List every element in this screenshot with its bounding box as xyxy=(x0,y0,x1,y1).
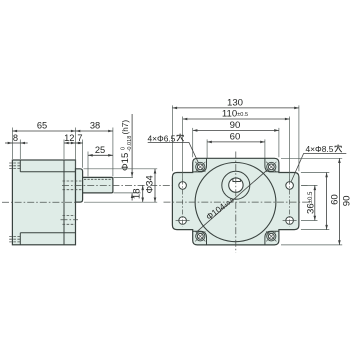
svg-text:8: 8 xyxy=(13,133,18,143)
phi6.5 hole top-left xyxy=(195,162,205,172)
gear hidden lines lower xyxy=(63,215,76,224)
motor/gearhead joint line xyxy=(63,160,65,245)
svg-text:(h7): (h7) xyxy=(121,120,130,135)
keyway xyxy=(233,179,241,182)
svg-text:-0.018: -0.018 xyxy=(127,136,133,152)
dim 90 right xyxy=(338,158,340,245)
ext line shaft bottom right xyxy=(114,192,141,194)
ext line shaft top right xyxy=(114,176,134,178)
output shaft xyxy=(83,177,113,193)
dim 38 xyxy=(76,130,113,132)
hole tick left-bottom xyxy=(176,220,190,222)
hole column centerline left xyxy=(182,180,184,227)
rear cover joint line xyxy=(19,160,21,172)
ext line x=12.4 xyxy=(11,128,13,160)
dim 110 +-0.5 xyxy=(183,118,290,120)
lower gear axis centerline xyxy=(61,219,79,221)
phi8.5 hole right-top xyxy=(286,182,294,190)
corner pad bottom-right xyxy=(265,231,279,245)
ext line x=75.6 xyxy=(75,128,77,168)
dim 25 xyxy=(88,154,113,156)
dim 60 right xyxy=(326,173,328,230)
label phi15 tolerance (h7) rotated xyxy=(120,120,133,171)
horizontal centerline front view xyxy=(164,201,310,203)
phi104 diagonal leader xyxy=(197,170,267,232)
ext line x=20.3 xyxy=(19,140,21,160)
dim 36 +-0.5 xyxy=(314,185,316,220)
svg-text:Φ34: Φ34 xyxy=(144,175,155,194)
spigot circle phi104 xyxy=(195,163,276,242)
svg-text:38: 38 xyxy=(90,121,100,131)
ext line x=64 xyxy=(63,140,65,160)
corner pad top-right xyxy=(265,158,279,172)
svg-text:7: 7 xyxy=(77,133,82,143)
phi6.5 hole top-right xyxy=(266,162,276,172)
boss circle xyxy=(222,171,250,199)
corner pad top-left xyxy=(193,158,207,172)
upper internal body line xyxy=(20,171,75,173)
ext line x=112.9 xyxy=(112,128,114,177)
svg-text:60: 60 xyxy=(230,132,241,143)
phi8.5 hole right-bottom xyxy=(286,217,294,225)
ext line x=88 xyxy=(87,152,89,177)
svg-text:4×Φ6.5: 4×Φ6.5 xyxy=(148,133,176,143)
rear screw hidden lines top xyxy=(9,163,20,169)
svg-text:25: 25 xyxy=(95,145,105,155)
svg-text:0: 0 xyxy=(120,147,126,150)
dim 65 xyxy=(12,130,75,132)
dim 7 xyxy=(76,142,83,144)
phi6.5 hole bottom-left xyxy=(195,231,205,241)
hole tick right-bottom xyxy=(283,220,297,222)
svg-text:65: 65 xyxy=(37,121,47,131)
svg-text:18: 18 xyxy=(132,188,143,199)
ext line boss top right xyxy=(84,168,158,170)
phi8.5 hole left-top xyxy=(179,182,187,190)
shaft hole xyxy=(229,178,243,192)
svg-text:90: 90 xyxy=(341,196,350,207)
phi8.5 hole left-bottom xyxy=(179,217,187,225)
dim 12 xyxy=(64,142,76,144)
svg-text:130: 130 xyxy=(227,98,243,109)
svg-text:60: 60 xyxy=(330,194,341,205)
motor body fill xyxy=(12,160,75,245)
gear hidden lines upper xyxy=(63,181,83,190)
ext line x=82.6 xyxy=(82,140,84,168)
svg-text:Φ15: Φ15 xyxy=(120,153,131,171)
ext lines right xyxy=(281,158,342,245)
phi104 label xyxy=(204,195,236,222)
svg-text:4×Φ8.5: 4×Φ8.5 xyxy=(306,144,334,154)
phi15 dim leader upper xyxy=(131,114,133,177)
leader 4x phi6.5 xyxy=(148,142,199,163)
rear screw hidden lines bottom xyxy=(9,236,20,242)
dim 18 xyxy=(142,185,144,202)
phi15 dim leader lower xyxy=(131,193,133,200)
svg-text:12: 12 xyxy=(64,133,74,143)
svg-text:110±0.5: 110±0.5 xyxy=(222,109,248,120)
shaft axis centerline (extends to front view) xyxy=(62,184,308,186)
dim 130 xyxy=(172,107,299,109)
vertical centerline front view xyxy=(235,152,237,253)
ext line body axis right xyxy=(84,201,157,203)
lower internal body line xyxy=(20,232,75,234)
ext lines top xyxy=(172,105,299,180)
dim 60 top xyxy=(207,141,265,143)
svg-text:90: 90 xyxy=(230,120,241,131)
keyway hidden line on shaft xyxy=(84,178,112,180)
hole column centerline right xyxy=(289,180,291,227)
flange plus-shape outline xyxy=(172,158,299,245)
dim phi34 xyxy=(154,169,156,202)
dim 8 (outside arrows) xyxy=(12,142,20,144)
body centerline xyxy=(2,201,80,203)
dim 90 top xyxy=(193,129,279,131)
phi6.5 hole bottom-right xyxy=(266,231,276,241)
boss phi34 xyxy=(76,169,83,202)
leader 4x phi8.5 xyxy=(291,154,346,183)
corner pad bottom-left xyxy=(193,231,207,245)
